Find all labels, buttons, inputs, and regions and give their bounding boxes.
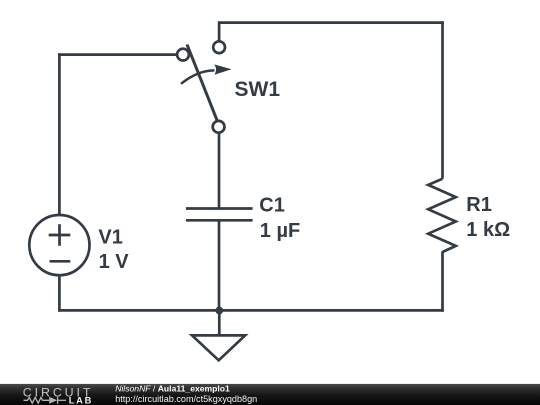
- voltage source V1 circle: [29, 215, 89, 275]
- svg-text:R1: R1: [466, 194, 492, 216]
- wire bottom horizontal: [58, 309, 444, 312]
- junction node: [215, 307, 223, 315]
- wire left vertical upper: [58, 53, 61, 215]
- wire right vertical lower: [441, 252, 444, 312]
- svg-text:1 kΩ: 1 kΩ: [466, 219, 510, 241]
- wire capacitor bottom stem: [218, 220, 221, 310]
- switch SW1 terminal circle left: [177, 49, 189, 61]
- svg-text:1 V: 1 V: [99, 251, 130, 273]
- svg-text:C1: C1: [259, 195, 285, 217]
- svg-text:SW1: SW1: [235, 78, 281, 101]
- voltage source V1: [29, 215, 89, 275]
- switch SW1 arrow arc: [181, 70, 215, 83]
- svg-text:NilsonNF / Aula11_exemplo1: NilsonNF / Aula11_exemplo1: [115, 384, 230, 394]
- capacitor C1: [186, 209, 253, 221]
- svg-text:http://circuitlab.com/ct5kgxyq: http://circuitlab.com/ct5kgxyqdb8gn: [115, 394, 257, 404]
- wire switch bottom to capacitor: [218, 133, 221, 209]
- svg-text:1 µF: 1 µF: [260, 220, 300, 242]
- footer logo waveform: [24, 397, 67, 404]
- switch SW1 terminal circle top: [213, 41, 225, 53]
- svg-text:LAB: LAB: [69, 396, 94, 405]
- ground: [192, 310, 245, 360]
- switch SW1 terminal circle bottom: [213, 121, 225, 133]
- footer bar: [0, 384, 540, 405]
- wire left vertical lower: [58, 276, 61, 312]
- resistor R1: [428, 179, 456, 252]
- wire top horizontal: [219, 21, 444, 24]
- switch SW1: [177, 41, 225, 132]
- ground stem: [218, 310, 221, 335]
- ground triangle: [192, 335, 245, 360]
- wire top-left horizontal: [58, 53, 177, 56]
- wire right vertical upper: [441, 21, 444, 179]
- switch SW1 lever: [187, 45, 217, 121]
- wire switch top stem: [218, 21, 221, 41]
- svg-text:V1: V1: [98, 227, 122, 249]
- capacitor C1 bottom plate: [186, 219, 253, 222]
- voltage source V1 plus sign: [49, 224, 71, 246]
- footer logo diode: [49, 397, 57, 404]
- capacitor C1 top plate: [186, 207, 253, 210]
- switch SW1 arrowhead: [214, 64, 231, 74]
- voltage source V1 minus sign: [50, 260, 71, 263]
